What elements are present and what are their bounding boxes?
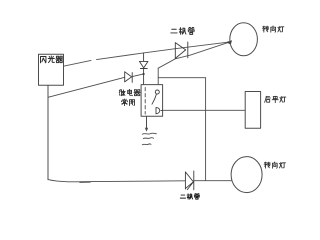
junction arrow at top lamp node (226, 40, 232, 44)
label 二极管 (diode, top) (171, 27, 195, 34)
label 继电器 (relay) (119, 89, 140, 95)
wire: D4 cathode to node under D2 (132, 74, 143, 77)
wire: junction at (48,97) diagonal up to diode D4 (48, 77, 125, 97)
flasher box 闪光器 (39, 54, 64, 85)
wire: flasher bottom down (47, 85, 49, 179)
wire: line B diagonal to top turn lamp (158, 42, 230, 68)
relay contact (D shape) (156, 108, 163, 114)
label 常闭 (normally closed) (122, 99, 135, 106)
rear lamp box 后车灯 (245, 92, 260, 129)
top diode D1 (二极管) (175, 42, 188, 58)
label 后车灯 (rear lamp) (265, 96, 286, 103)
diode D4 (next to relay, 继电器) (125, 72, 133, 83)
top turn lamp circle (230, 23, 258, 56)
relay internal pivot circle (155, 90, 159, 94)
wire: long right vertical down to bottom rail (205, 78, 207, 181)
junction dot at (143.6,74) (143, 73, 145, 75)
label 二极管 (diode, bottom) (180, 193, 199, 199)
wire: flasher right to top turn lamp (line A, with scan gap) (64, 42, 230, 66)
relay switch arm (152, 94, 156, 104)
wire: branch at y=77.7 to right vertical (158, 77, 205, 79)
wire: relay output to rear lamp (163, 109, 246, 111)
relay box 继电器 (141, 85, 163, 117)
ground squiggles (142, 133, 156, 134)
vertical diode D2 (points down into relay) (139, 53, 148, 85)
wire: bottom rail to bottom diode (48, 180, 185, 183)
label 闪光器 (flasher) (41, 56, 63, 63)
relay internal dashed pole (144, 88, 146, 115)
wire: D3 cathode to bottom turn lamp (194, 180, 232, 182)
label 转向灯 (turn lamp, top) (263, 26, 284, 32)
wire: relay top-right pin up (157, 68, 159, 84)
bottom diode D3 (185, 171, 193, 190)
bottom turn lamp circle (231, 157, 262, 193)
relay bottom pin with arrowhead (146, 116, 148, 129)
label 转向灯 (turn lamp, bottom) (264, 162, 285, 168)
